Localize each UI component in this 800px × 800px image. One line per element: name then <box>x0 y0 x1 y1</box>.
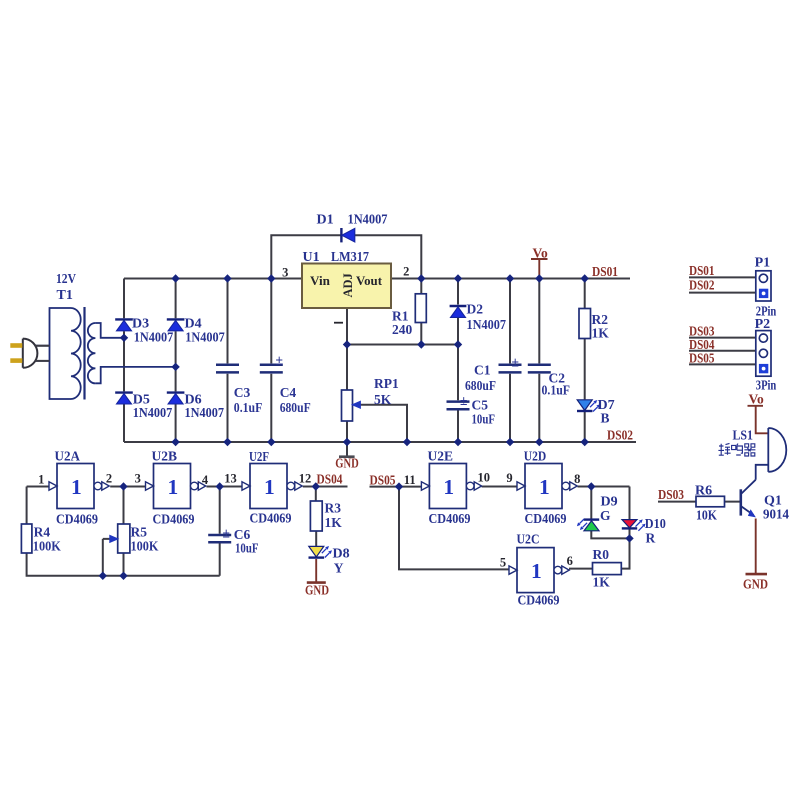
svg-text:B: B <box>601 411 610 426</box>
svg-text:100K: 100K <box>131 538 159 553</box>
svg-text:11: 11 <box>404 473 416 487</box>
svg-text:10K: 10K <box>696 509 717 524</box>
svg-text:U2B: U2B <box>152 450 178 465</box>
svg-text:8: 8 <box>574 472 580 486</box>
svg-text:5K: 5K <box>374 392 392 407</box>
svg-text:DS02: DS02 <box>689 277 715 292</box>
svg-text:C5: C5 <box>472 398 489 413</box>
svg-text:LS1: LS1 <box>733 429 754 444</box>
svg-text:1N4007: 1N4007 <box>133 406 173 421</box>
svg-text:D4: D4 <box>185 317 202 332</box>
svg-text:GND: GND <box>743 577 768 592</box>
svg-text:9: 9 <box>506 471 512 485</box>
svg-text:Vin: Vin <box>310 274 330 288</box>
svg-text:U1: U1 <box>303 250 320 265</box>
svg-text:P1: P1 <box>755 256 771 271</box>
svg-text:13: 13 <box>224 472 237 486</box>
svg-text:3: 3 <box>282 266 288 280</box>
svg-text:U2F: U2F <box>249 450 269 465</box>
svg-text:Y: Y <box>334 561 344 576</box>
svg-text:C4: C4 <box>280 385 297 400</box>
svg-text:1K: 1K <box>593 575 611 590</box>
svg-text:6: 6 <box>567 554 573 568</box>
svg-text:12: 12 <box>299 472 312 486</box>
svg-text:CD4069: CD4069 <box>153 513 195 528</box>
svg-text:D3: D3 <box>132 317 149 332</box>
svg-text:LM317: LM317 <box>331 250 369 265</box>
svg-text:1K: 1K <box>325 515 343 530</box>
svg-text:12V: 12V <box>56 272 76 287</box>
svg-text:Vo: Vo <box>533 246 549 261</box>
svg-text:0.1uF: 0.1uF <box>234 400 262 415</box>
svg-text:R4: R4 <box>34 524 51 539</box>
svg-text:U2E: U2E <box>428 450 454 465</box>
svg-text:U2D: U2D <box>524 450 547 465</box>
svg-text:10uF: 10uF <box>235 541 259 556</box>
svg-text:CD4069: CD4069 <box>525 512 567 527</box>
svg-text:1N4007: 1N4007 <box>467 317 507 332</box>
svg-text:4: 4 <box>202 473 209 487</box>
svg-text:±: ± <box>460 393 467 408</box>
svg-text:CD4069: CD4069 <box>518 594 560 609</box>
svg-text:1N4007: 1N4007 <box>185 406 225 421</box>
svg-text:±: ± <box>223 526 230 541</box>
svg-text:DS05: DS05 <box>689 351 715 366</box>
svg-text:1K: 1K <box>592 326 610 341</box>
svg-text:2: 2 <box>106 472 112 486</box>
svg-text:D1: D1 <box>317 213 334 228</box>
svg-text:±: ± <box>512 355 519 370</box>
svg-text:10uF: 10uF <box>472 412 496 427</box>
svg-text:240: 240 <box>392 322 413 337</box>
svg-text:0.1uF: 0.1uF <box>542 383 571 398</box>
svg-text:5: 5 <box>500 556 506 570</box>
svg-text:GND: GND <box>335 456 359 471</box>
svg-text:DS02: DS02 <box>607 428 633 443</box>
svg-text:R0: R0 <box>593 547 610 562</box>
svg-text:T1: T1 <box>57 288 73 303</box>
svg-text:1: 1 <box>38 473 44 487</box>
svg-text:C3: C3 <box>234 385 251 400</box>
svg-text:CD4069: CD4069 <box>56 513 98 528</box>
svg-text:CD4069: CD4069 <box>429 512 471 527</box>
svg-text:1N4007: 1N4007 <box>348 213 388 228</box>
svg-text:DS01: DS01 <box>689 263 715 278</box>
svg-text:2: 2 <box>403 265 409 279</box>
svg-text:DS05: DS05 <box>370 473 396 488</box>
svg-text:Vo: Vo <box>749 392 765 407</box>
svg-text:R: R <box>646 531 656 546</box>
svg-text:G: G <box>600 508 611 523</box>
svg-text:P2: P2 <box>755 317 771 332</box>
svg-text:Q1: Q1 <box>764 494 782 509</box>
svg-text:GND: GND <box>305 583 329 598</box>
svg-text:10: 10 <box>477 471 490 485</box>
svg-text:CD4069: CD4069 <box>250 512 292 527</box>
svg-text:3: 3 <box>135 472 141 486</box>
svg-text:C1: C1 <box>474 363 491 378</box>
svg-text:D2: D2 <box>467 302 484 317</box>
svg-text:R6: R6 <box>695 484 712 499</box>
svg-text:Vout: Vout <box>356 274 383 288</box>
svg-text:1N4007: 1N4007 <box>134 331 174 346</box>
svg-text:R3: R3 <box>325 501 342 516</box>
svg-text:±: ± <box>276 353 283 368</box>
svg-text:DS01: DS01 <box>592 264 618 279</box>
svg-text:100K: 100K <box>33 538 61 553</box>
svg-text:ADJ: ADJ <box>341 273 355 297</box>
svg-text:DS04: DS04 <box>689 337 715 352</box>
svg-text:DS04: DS04 <box>317 472 343 487</box>
svg-text:680uF: 680uF <box>465 378 496 393</box>
svg-text:680uF: 680uF <box>280 400 311 415</box>
svg-text:U2C: U2C <box>517 533 540 548</box>
svg-text:R5: R5 <box>131 524 148 539</box>
svg-text:U2A: U2A <box>55 450 81 465</box>
svg-text:D8: D8 <box>333 547 350 562</box>
svg-text:RP1: RP1 <box>374 376 399 391</box>
svg-text:1N4007: 1N4007 <box>185 331 225 346</box>
svg-text:9014: 9014 <box>763 508 789 523</box>
svg-text:DS03: DS03 <box>658 487 684 502</box>
